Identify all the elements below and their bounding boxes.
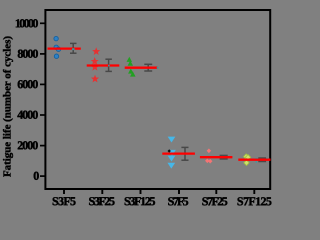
group 6 error bar (collapsed) — [258, 158, 266, 161]
group 3 S3F125 : green triangles — [127, 57, 136, 77]
svg-text:S3F5: S3F5 — [52, 194, 76, 206]
group 3 error bar — [144, 64, 152, 71]
group 6 mean line — [238, 159, 270, 161]
group 1 mean line — [48, 47, 81, 49]
svg-text:S3F25: S3F25 — [89, 194, 116, 206]
group 4 black diamond — [168, 149, 171, 152]
group 2 S3F25 : red stars — [92, 48, 100, 81]
svg-text:S7F125: S7F125 — [237, 194, 272, 206]
y axis ticks — [40, 23, 45, 176]
group 4 S7F5 : cyan down triangles — [167, 137, 175, 169]
group 6 cyan dash — [255, 158, 267, 160]
svg-text:10000: 10000 — [15, 16, 39, 30]
svg-text:S7F25: S7F25 — [202, 194, 228, 206]
plot frame — [45, 10, 270, 189]
group 3 mean line — [125, 67, 158, 69]
group 6 S7F125 : yellow-green diamonds — [244, 154, 251, 166]
group 3 cyan dot — [157, 67, 159, 69]
svg-text:S3F125: S3F125 — [124, 194, 156, 206]
y tick labels — [15, 16, 40, 183]
group 2 error bar — [105, 59, 112, 71]
x axis ticks — [64, 190, 254, 194]
svg-text:2000: 2000 — [17, 138, 38, 152]
x tick labels — [52, 194, 272, 208]
svg-text:Fatigue life (number of cycles: Fatigue life (number of cycles) — [2, 36, 14, 177]
svg-text:4000: 4000 — [17, 108, 38, 122]
group 5 error bar (collapsed) — [220, 156, 228, 159]
group 4 mean line — [162, 152, 195, 154]
svg-text:S7F5: S7F5 — [168, 194, 189, 206]
group 6 cyan tick lower — [256, 161, 257, 162]
group 5 mean line — [200, 156, 233, 158]
group 4 error bar — [181, 147, 188, 160]
group 1 S3F5 : blue circles — [54, 36, 61, 58]
svg-text:8000: 8000 — [17, 47, 38, 61]
group 5 S7F25 : pink diamonds — [205, 149, 212, 164]
group 1 cyan dot — [72, 48, 75, 50]
svg-text:0: 0 — [33, 169, 39, 183]
group 2 mean line — [87, 64, 120, 66]
svg-text:6000: 6000 — [17, 77, 38, 91]
group 2 cyan dot — [108, 65, 110, 67]
group 1 error bar — [70, 43, 77, 53]
